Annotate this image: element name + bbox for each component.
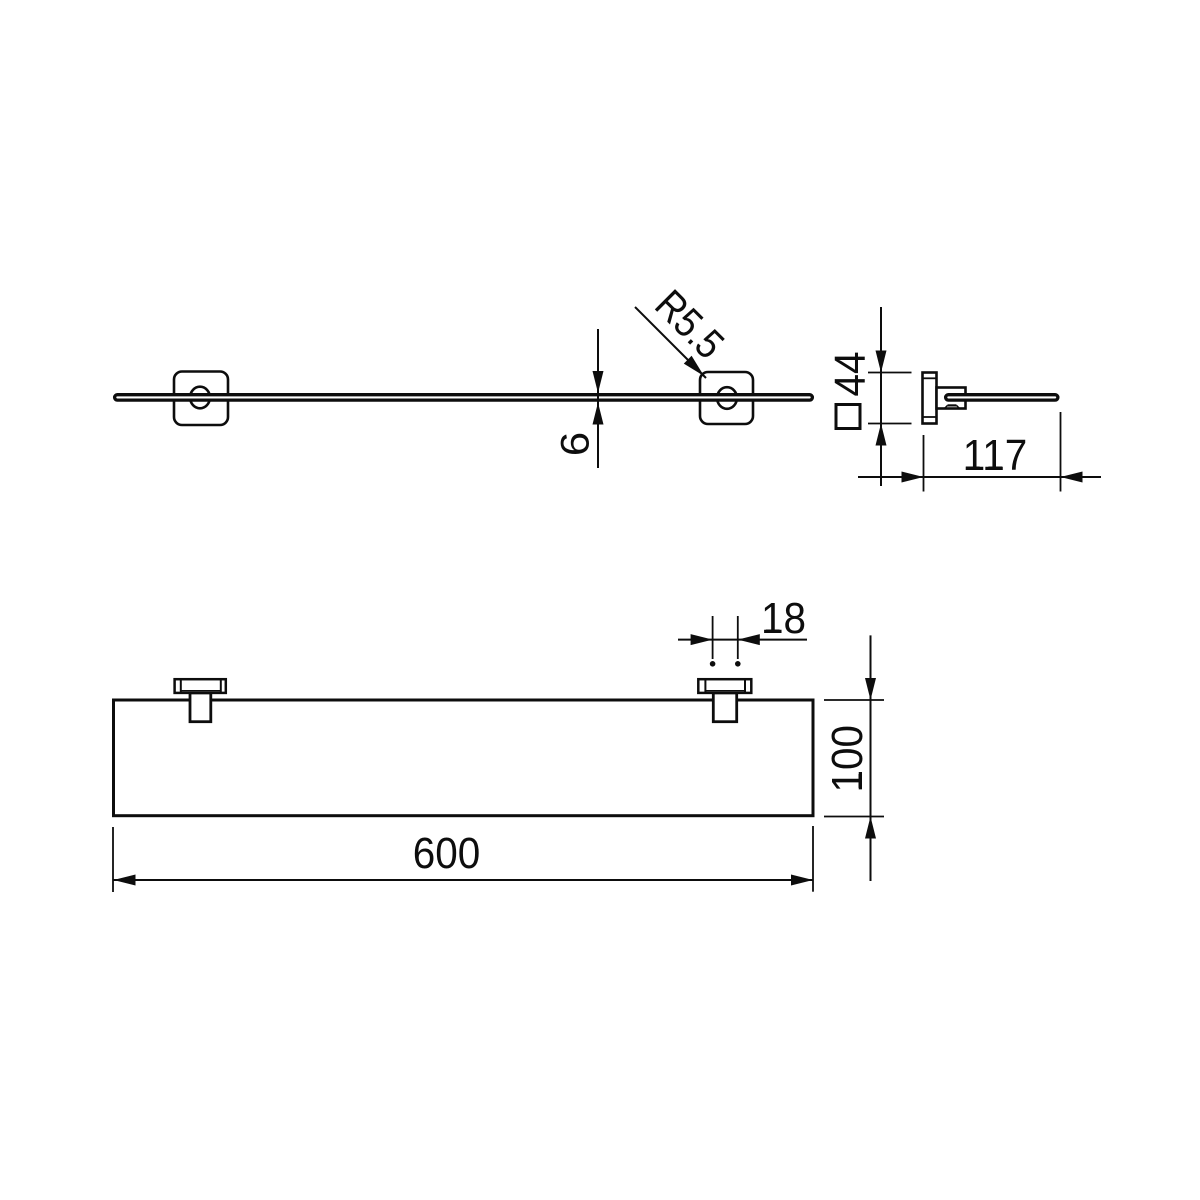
dimension 44: bottom extension line <box>868 423 912 425</box>
dimension 6: upper arrow <box>593 371 604 393</box>
top view: left plate inner line <box>181 690 221 692</box>
dimension 117: text <box>963 430 1028 479</box>
front view: left bracket screw ellipse <box>190 387 210 409</box>
dimension 100: upper arrow <box>865 678 876 700</box>
dimension 44: dimension line <box>880 307 882 486</box>
front view: right bracket square <box>700 372 753 424</box>
dimension 117: left extension line <box>923 435 925 492</box>
dimension 18: text <box>761 593 806 642</box>
dimension 600: left arrow <box>114 875 136 886</box>
svg-text:117: 117 <box>963 430 1028 479</box>
side view: wall plate upper edge line <box>923 377 937 379</box>
side view: holder body <box>937 388 966 409</box>
top view: right plate right tick <box>744 679 746 693</box>
dimension 100: bottom extension line <box>824 816 884 818</box>
front view: right bracket screw ellipse <box>717 387 737 409</box>
dimension 18: left end dot <box>710 661 716 667</box>
dimension 18: left arrow <box>691 634 713 645</box>
dimension 117: right arrow <box>1061 472 1083 483</box>
top view: right bracket arm <box>713 693 736 722</box>
side view: set screw notch top line <box>948 404 957 406</box>
top view: right bracket wall plate <box>698 679 751 693</box>
top view: left bracket arm <box>190 693 211 722</box>
svg-text:600: 600 <box>413 828 481 877</box>
radius R5.5: leader line <box>635 307 706 378</box>
svg-text:6: 6 <box>552 432 596 456</box>
dimension 6: dimension line <box>597 329 599 468</box>
dimension 100: dimension line <box>870 635 872 881</box>
dimension 18: left extension line <box>712 616 714 659</box>
dimension 6: lower arrow <box>593 403 604 425</box>
dimension 117: dimension line <box>858 476 1101 478</box>
svg-text:18: 18 <box>761 593 806 642</box>
dimension 18: right arrow <box>738 634 760 645</box>
dimension 600: right extension line <box>812 826 814 892</box>
dimension 100: top extension line <box>824 699 884 701</box>
front view: glass shelf bar <box>115 395 813 400</box>
top view: left plate left tick <box>180 679 182 693</box>
dimension 18: right end dot <box>735 661 741 667</box>
side view: set screw notch left slope <box>945 405 948 408</box>
top view: glass shelf rectangle <box>114 700 814 816</box>
top view: right plate left tick <box>704 679 706 693</box>
side view: wall plate lower edge line <box>923 416 937 418</box>
dimension 600: left extension line <box>112 827 114 892</box>
dimension 100: text <box>822 725 871 793</box>
dimension 600: right arrow <box>791 875 813 886</box>
side view: glass shelf bar <box>946 395 1058 400</box>
side view: set screw notch right slope <box>957 405 960 408</box>
svg-text:100: 100 <box>822 725 871 793</box>
dimension 44: square section symbol <box>836 405 860 429</box>
dimension 44: lower arrow <box>876 424 887 446</box>
dimension 600: dimension line <box>114 879 814 881</box>
radius R5.5: leader arrowhead <box>684 356 704 376</box>
dimension 44: top extension line <box>868 372 912 374</box>
dimension 100: lower arrow <box>865 817 876 839</box>
svg-text:44: 44 <box>825 351 874 396</box>
front view: left bracket square <box>174 372 228 426</box>
dimension 18: right extension line <box>737 616 739 659</box>
top view: right plate inner line <box>705 690 745 692</box>
side view: wall plate <box>923 373 937 424</box>
top view: left bracket wall plate <box>175 679 226 693</box>
dimension 117: left arrow <box>902 472 924 483</box>
dimension 44: upper arrow <box>876 351 887 373</box>
dimension 117: right extension line <box>1060 412 1062 492</box>
dimension 18: dimension line <box>678 639 807 641</box>
top view: left plate right tick <box>220 679 222 693</box>
